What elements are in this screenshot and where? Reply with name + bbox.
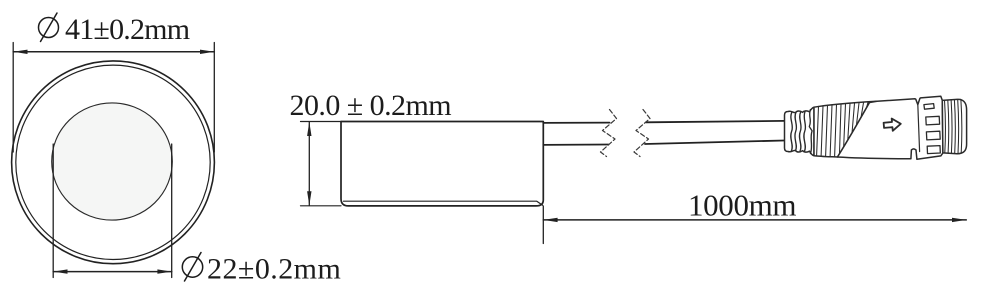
dim 41 diameter symbol xyxy=(39,13,59,42)
dim 1000 extension line (body right edge extended) xyxy=(542,206,544,244)
cable break symbol left xyxy=(601,110,617,157)
sensor body side view outline xyxy=(341,122,543,206)
connector thread lines xyxy=(945,99,962,153)
dim 1000 dimension line xyxy=(543,219,966,221)
front view outer circle (bezel outer edge) xyxy=(12,61,215,264)
dim 20 top arrowhead xyxy=(307,122,311,136)
connector ring slot 2 xyxy=(926,131,940,140)
svg-text:20.0 ± 0.2mm: 20.0 ± 0.2mm xyxy=(290,89,452,122)
dim 22 right extension line xyxy=(171,144,173,278)
dim 22 left arrowhead xyxy=(53,269,67,273)
connector ring slot 1 xyxy=(926,116,940,125)
dim 22 diameter symbol xyxy=(182,253,202,282)
connector bellows ridge lines xyxy=(791,110,812,154)
svg-text:41±0.2mm: 41±0.2mm xyxy=(65,13,190,46)
wire top right segment xyxy=(646,121,784,122)
dim 20 top extension line xyxy=(301,121,342,123)
connector boot bellows silhouette xyxy=(785,107,815,156)
cable break symbol right xyxy=(634,110,650,157)
dim 1000 left arrowhead xyxy=(543,218,557,222)
wire bottom right segment xyxy=(645,141,784,145)
connector ring slot top xyxy=(924,104,934,110)
dim 20 bottom arrowhead xyxy=(307,191,311,205)
front view inner circle (transducer face) xyxy=(52,103,173,220)
connector ring slot 3 xyxy=(927,146,940,154)
dim 41 dimension line xyxy=(13,51,214,53)
connector body ring boundary line xyxy=(918,104,920,151)
dim 20 dimension line xyxy=(308,122,310,206)
dim 41 right extension line xyxy=(213,43,215,153)
connector sleeve ribs xyxy=(817,102,872,157)
dim 22 right arrowhead xyxy=(157,269,171,273)
sensor body bottom inner line xyxy=(344,201,543,205)
dim 22 dimension line xyxy=(53,271,172,273)
dim 41 left arrowhead xyxy=(13,50,27,54)
dim 41 left extension line xyxy=(12,43,14,153)
connector threaded section silhouette xyxy=(942,99,966,153)
front view outer circle inner line xyxy=(16,65,210,259)
connector group xyxy=(785,96,967,159)
dim 20 bottom extension line xyxy=(301,205,342,207)
connector ribbed sleeve silhouette xyxy=(814,101,877,157)
dim 1000 right arrowhead xyxy=(952,218,966,222)
dim 41 right arrowhead xyxy=(200,50,214,54)
svg-text:22±0.2mm: 22±0.2mm xyxy=(207,252,341,285)
connector smooth body silhouette xyxy=(838,96,943,159)
connector body printed arrow xyxy=(883,118,901,132)
wire top left segment xyxy=(543,122,609,124)
connector boundary highlight curve xyxy=(841,102,872,157)
dim 22 left extension line xyxy=(52,144,54,278)
svg-text:1000mm: 1000mm xyxy=(688,188,796,223)
wire bottom left segment xyxy=(543,144,608,146)
